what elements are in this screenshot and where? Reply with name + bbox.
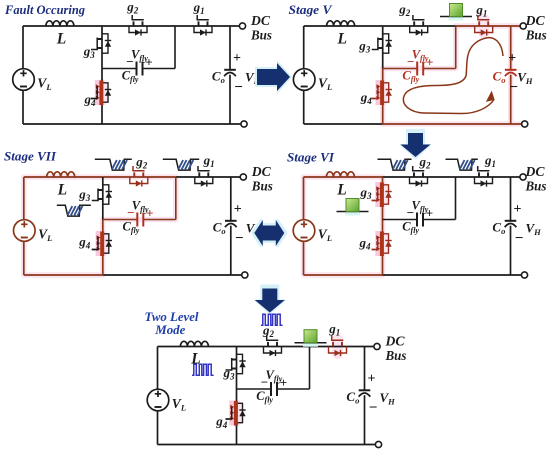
P3: DC bus terminal bottom xyxy=(242,272,248,278)
P4: flying-cap branch wire xyxy=(383,219,418,221)
svg-text:−: − xyxy=(234,80,243,96)
svg-text:Fault Occuring: Fault Occuring xyxy=(4,2,85,17)
P3: output branch wire xyxy=(230,177,232,221)
P1: DC bus terminal bottom xyxy=(241,121,247,127)
svg-text:+: + xyxy=(426,206,433,221)
svg-text:−: − xyxy=(369,400,378,416)
transition arrow glow xyxy=(253,285,286,316)
transition arrow glow xyxy=(255,60,292,94)
P1: output capacitor C_o xyxy=(224,69,236,71)
Two Level Mode: PWM signal for g3 xyxy=(192,364,214,375)
svg-text:+: + xyxy=(234,202,242,217)
P5: highlight glow xyxy=(232,405,242,422)
P4: middle vertical wire xyxy=(382,177,384,220)
svg-text:−: − xyxy=(235,231,244,247)
P2: bottom wire xyxy=(304,123,383,125)
P5: transistor g1 xyxy=(329,347,347,354)
Stage VII: gate-off signal for g2 xyxy=(95,159,132,170)
svg-text:Bus: Bus xyxy=(525,27,547,42)
P2: output branch wire xyxy=(510,26,512,70)
P4: voltage source V_L xyxy=(293,220,315,242)
svg-text:Stage V: Stage V xyxy=(289,2,333,17)
P2: transistor g4 (faulted) xyxy=(383,83,389,102)
svg-text:+: + xyxy=(145,55,152,70)
svg-text:−: − xyxy=(407,54,414,69)
P2: highlight glow xyxy=(456,23,524,29)
svg-text:+: + xyxy=(233,51,241,66)
svg-text:+: + xyxy=(368,372,376,387)
P2: DC bus terminal top xyxy=(520,23,526,29)
Stage V: gate pulse for g1 (on) xyxy=(449,16,464,21)
P5: flying-cap branch wire xyxy=(237,388,272,390)
P4: transistor g3 xyxy=(383,185,389,204)
P1: output branch wire xyxy=(229,26,231,70)
P4: left wire xyxy=(303,177,305,275)
P2: transistor g3 xyxy=(383,34,389,53)
Stage VI: gate-off signal for g2 xyxy=(378,159,412,170)
P3: transistor g2 xyxy=(130,177,148,184)
svg-text:Bus: Bus xyxy=(250,27,272,42)
P1: transistor g2 xyxy=(129,26,147,33)
P1: flying-cap branch wire xyxy=(102,68,137,70)
P2: top wire xyxy=(304,25,383,27)
svg-text:L: L xyxy=(336,31,346,48)
P4: top wire xyxy=(304,176,383,178)
P5: top wire xyxy=(158,346,237,348)
P1: transistor g3 xyxy=(102,34,108,53)
Two Level Mode: gate pulse for g1 xyxy=(303,342,318,347)
P1: DC bus terminal top xyxy=(239,23,245,29)
Stage VI: gate-off signal for g1 xyxy=(446,159,478,170)
P1: flying capacitor C_fly xyxy=(137,62,143,76)
P1: left wire xyxy=(22,26,24,124)
transition arrow: down xyxy=(255,289,285,313)
svg-text:−: − xyxy=(127,205,134,220)
P5: inductor L xyxy=(180,341,208,346)
P3: flying capacitor C_fly xyxy=(137,213,143,227)
P5: transistor g3 xyxy=(237,354,243,373)
svg-text:+: + xyxy=(146,206,153,221)
svg-text:DC: DC xyxy=(384,334,405,349)
svg-text:+: + xyxy=(426,55,433,70)
transition arrow: right xyxy=(257,63,290,91)
P4: DC bus terminal top xyxy=(520,174,526,180)
P1: highlight glow xyxy=(97,84,107,101)
P2: transistor g2 xyxy=(410,26,428,33)
P4: output capacitor C_o xyxy=(505,220,517,222)
P3: highlight glow xyxy=(21,177,27,275)
Stage V: current loop arrow xyxy=(403,38,503,114)
P3: left wire xyxy=(23,177,25,275)
P5: DC bus terminal top xyxy=(374,343,380,349)
svg-text:−: − xyxy=(407,205,414,220)
svg-text:+: + xyxy=(508,51,516,66)
P2: inductor L xyxy=(327,21,355,26)
svg-text:DC: DC xyxy=(524,164,545,179)
P1: inductor L xyxy=(46,21,74,26)
Stage VII: gate-off signal for g1 xyxy=(163,159,199,170)
P1: transistor g4 (faulted) xyxy=(102,83,108,102)
P5: transistor g2 xyxy=(264,347,282,354)
P5: bottom wire xyxy=(158,444,237,446)
P4: flying capacitor C_fly xyxy=(417,213,423,227)
P5: voltage source V_L xyxy=(147,389,169,411)
transition arrow glow xyxy=(399,129,432,160)
P3: inductor L xyxy=(47,172,75,177)
svg-text:Bus: Bus xyxy=(251,178,273,193)
P3: transistor g4 (faulted) xyxy=(103,234,109,253)
svg-text:DC: DC xyxy=(525,13,546,28)
P3: voltage source V_L xyxy=(13,220,35,242)
P2: left wire xyxy=(303,26,305,124)
svg-text:Bus: Bus xyxy=(385,348,407,363)
P1: bottom wire xyxy=(23,123,102,125)
svg-text:Stage VI: Stage VI xyxy=(287,150,335,165)
svg-text:Stage VII: Stage VII xyxy=(4,149,57,164)
P3: top wire xyxy=(24,176,103,178)
P4: bottom wire xyxy=(304,274,383,276)
svg-text:L: L xyxy=(57,182,67,199)
Stage VII: gate-off signal for g3 xyxy=(57,205,91,216)
P4: output branch wire xyxy=(510,177,512,221)
P2: DC bus terminal bottom xyxy=(522,121,528,127)
P5: DC bus terminal bottom xyxy=(375,441,381,447)
P4: transistor g2 xyxy=(410,177,428,184)
P1: middle vertical wire xyxy=(101,26,103,69)
P3: bottom wire xyxy=(24,274,103,276)
P4: transistor g1 xyxy=(475,177,493,184)
P4: inductor L xyxy=(326,172,354,177)
svg-text:L: L xyxy=(56,31,66,48)
P5: output branch wire xyxy=(364,347,366,391)
transition arrow glow xyxy=(253,221,285,245)
svg-text:+: + xyxy=(514,202,522,217)
P5: left wire xyxy=(157,347,159,445)
P5: middle vertical wire xyxy=(236,347,238,390)
P3: output capacitor C_o xyxy=(225,220,237,222)
Two Level Mode: PWM signal for g2 xyxy=(261,314,283,325)
svg-text:−: − xyxy=(515,231,524,247)
svg-text:L: L xyxy=(336,182,346,199)
P1: voltage source V_L xyxy=(13,69,35,91)
P3: DC bus terminal top xyxy=(240,174,246,180)
P2: output capacitor C_o xyxy=(505,69,517,71)
P5: transistor g4 (faulted) xyxy=(237,403,243,422)
transition arrow: down xyxy=(401,133,431,157)
P3: middle vertical wire xyxy=(102,177,104,220)
P4: highlight glow xyxy=(301,177,307,275)
P5: output capacitor C_o xyxy=(359,389,371,391)
svg-text:DC: DC xyxy=(250,13,271,28)
P2: flying capacitor C_fly xyxy=(417,62,423,76)
P2: middle vertical wire xyxy=(382,26,384,69)
P2: voltage source V_L xyxy=(293,69,315,91)
P1: transistor g1 xyxy=(194,26,212,33)
svg-text:−: − xyxy=(261,375,268,390)
P5: flying capacitor C_fly xyxy=(271,382,277,396)
transition arrow: left-right xyxy=(254,220,284,246)
P3: transistor g1 xyxy=(195,177,213,184)
P1: top wire xyxy=(23,25,102,27)
P2: flying-cap branch wire xyxy=(383,68,418,70)
P3: transistor g3 xyxy=(103,185,109,204)
svg-text:DC: DC xyxy=(251,164,272,179)
P4: DC bus terminal bottom xyxy=(521,272,527,278)
svg-text:−: − xyxy=(126,54,133,69)
P4: transistor g4 (faulted) xyxy=(383,234,389,253)
Stage VI: gate pulse for g3 (on) xyxy=(345,211,360,216)
svg-text:Bus: Bus xyxy=(525,178,547,193)
P3: flying-cap branch wire xyxy=(103,219,138,221)
P2: transistor g1 xyxy=(475,26,493,33)
svg-text:Mode: Mode xyxy=(154,322,185,337)
svg-text:+: + xyxy=(280,375,287,390)
